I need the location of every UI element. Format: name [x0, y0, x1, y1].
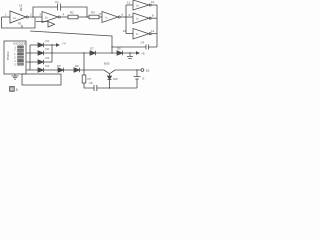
svg-text:D7: D7	[90, 47, 94, 51]
svg-text:9: 9	[129, 13, 131, 17]
wire C1 branch	[33, 7, 58, 17]
diode bus vertical left	[29, 45, 31, 70]
inverter U1e	[133, 13, 149, 24]
svg-text:BS202: BS202	[6, 51, 10, 60]
resistor R7	[82, 75, 86, 83]
svg-text:B2: B2	[146, 69, 150, 73]
svg-text:D1: D1	[46, 39, 50, 43]
svg-text:+V: +V	[62, 42, 66, 46]
wire to output terminal	[115, 69, 141, 71]
wire pin 11	[126, 4, 133, 6]
arrow +V	[56, 44, 59, 46]
svg-text:5: 5	[14, 63, 16, 66]
capacitor C1	[58, 4, 61, 11]
wire R7 to rail	[84, 83, 94, 88]
diode D8	[117, 51, 123, 55]
wire D7-D8	[96, 52, 118, 54]
long supply wire to pin 14	[30, 31, 112, 53]
svg-text:13: 13	[123, 29, 127, 33]
input bus vertical	[125, 5, 127, 34]
svg-text:D4: D4	[46, 64, 50, 68]
figure label	[10, 87, 15, 92]
wire row1	[30, 44, 38, 46]
pin 14 tick	[20, 8, 22, 12]
wire row4	[26, 69, 38, 71]
inverter U1c	[102, 12, 118, 23]
bottom rail	[97, 87, 137, 89]
svg-text:D8: D8	[117, 47, 121, 51]
capacitor to ground at rail	[127, 53, 133, 59]
resistor R3	[89, 15, 99, 19]
transistor BG5	[104, 70, 115, 74]
svg-text:SC023: SC023	[13, 42, 26, 46]
svg-text:1d: 1d	[136, 5, 139, 8]
empty box	[22, 74, 61, 85]
wire input left	[2, 16, 11, 18]
svg-text:R2: R2	[70, 10, 74, 14]
diode D6	[74, 68, 80, 72]
wire row3	[26, 61, 38, 63]
svg-text:C1: C1	[55, 0, 59, 4]
svg-text:DW: DW	[113, 77, 118, 81]
wire D5-D6	[64, 69, 75, 71]
svg-text:C8: C8	[89, 81, 93, 85]
wire rail +E	[44, 52, 91, 54]
diode D4	[38, 68, 44, 72]
IC pin boxes	[18, 46, 24, 48]
svg-text:D2: D2	[46, 47, 50, 51]
svg-text:1f: 1f	[136, 33, 138, 36]
wire C1 to junction	[61, 7, 88, 17]
wire row2	[26, 52, 38, 54]
wire output to C4	[149, 46, 158, 48]
output bus vertical	[156, 5, 158, 47]
diode D7	[90, 51, 96, 55]
resistor R2	[68, 15, 78, 19]
svg-text:C4: C4	[141, 41, 145, 45]
wire C4 to junction	[112, 46, 146, 48]
svg-text:1a: 1a	[13, 17, 16, 20]
diode bus vertical right	[51, 45, 53, 62]
svg-text:R3: R3	[91, 10, 95, 14]
svg-text:5: 5	[16, 88, 18, 92]
svg-text:11: 11	[127, 1, 130, 5]
wire pin 13	[126, 33, 133, 35]
inverter U1b	[42, 12, 58, 23]
svg-text:12: 12	[151, 29, 155, 33]
svg-text:3: 3	[39, 13, 41, 17]
wire node 6	[120, 16, 133, 18]
svg-text:+E: +E	[141, 52, 145, 56]
wire node 2	[28, 16, 42, 18]
wire to +E arrow	[123, 52, 137, 54]
wire row4 to transistor	[80, 69, 105, 71]
wire row1 to arrow	[44, 44, 57, 46]
terminal B1	[141, 69, 144, 72]
wire node 4	[60, 16, 68, 18]
diode D1	[38, 43, 44, 47]
svg-text:6: 6	[122, 13, 124, 17]
svg-text:E: E	[143, 77, 145, 81]
inverter U1d	[133, 0, 149, 10]
wire D4-D5	[44, 69, 59, 71]
svg-text:2: 2	[30, 13, 32, 17]
capacitor C4	[146, 45, 149, 50]
wire R3 to U1c	[99, 16, 102, 18]
svg-text:14: 14	[19, 4, 23, 8]
diode D5	[58, 68, 64, 72]
arrow +E	[136, 52, 139, 54]
battery E	[134, 70, 141, 88]
arrow mark	[36, 22, 55, 28]
svg-text:1c: 1c	[105, 17, 108, 20]
svg-text:8: 8	[152, 14, 154, 18]
svg-text:D6: D6	[75, 64, 79, 68]
svg-text:5: 5	[100, 12, 102, 16]
inverter U1f	[133, 29, 149, 40]
IC U2 box SC023	[4, 41, 26, 74]
wire pin 12	[151, 33, 157, 35]
zener DW	[109, 74, 111, 76]
diode D3	[38, 60, 44, 64]
inverter U1a	[10, 11, 26, 23]
diode D2	[38, 51, 44, 55]
svg-text:R1: R1	[18, 22, 22, 26]
wire R2-R3	[78, 16, 89, 18]
svg-text:10: 10	[151, 0, 155, 4]
wire pin 8	[151, 17, 157, 19]
wire pin 10	[151, 4, 157, 6]
svg-text:D3: D3	[46, 56, 50, 60]
svg-text:1b: 1b	[45, 17, 48, 20]
svg-text:4: 4	[63, 13, 65, 17]
resistor R1 feedback loop	[2, 17, 36, 28]
capacitor C8	[94, 85, 97, 91]
svg-text:1e: 1e	[136, 18, 139, 21]
ground under IC	[12, 74, 19, 79]
svg-text:1: 1	[5, 13, 7, 17]
wire bus down to R7	[83, 53, 85, 75]
svg-text:BG5: BG5	[104, 62, 110, 66]
svg-text:D5: D5	[57, 64, 61, 68]
wire row3 to bus	[44, 61, 53, 63]
